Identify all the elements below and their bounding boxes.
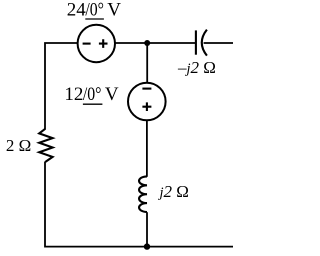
underline of angle for 24V	[85, 18, 104, 20]
V2 minus sign	[142, 88, 151, 90]
capacitor C curved plate	[202, 30, 207, 56]
svg-text:/0°: /0°	[83, 84, 102, 105]
label 12 angle 0 V	[64, 84, 119, 105]
wire left-bottom vertical and bottom horizontal	[45, 162, 233, 247]
wire inductor to bottom node	[146, 212, 148, 246]
svg-text:/0°: /0°	[85, 0, 104, 20]
underline of angle for 12V	[83, 103, 103, 105]
svg-text:24: 24	[67, 0, 87, 20]
V1 plus sign	[99, 39, 108, 48]
wire V1 to node A	[115, 42, 195, 44]
node A junction dot	[144, 40, 150, 46]
bottom junction dot	[144, 243, 150, 249]
svg-text:2 Ω: 2 Ω	[6, 136, 31, 155]
svg-text:V: V	[107, 0, 121, 20]
capacitor right wire to edge	[204, 42, 233, 44]
inductor L j2ohm coil	[139, 176, 147, 212]
voltage source V2 circle 12V	[128, 83, 166, 121]
resistor R 2ohm zigzag	[39, 129, 52, 162]
label 24 angle 0 V	[67, 0, 122, 20]
svg-text:–j2 Ω: –j2 Ω	[177, 58, 216, 77]
svg-text:12: 12	[64, 84, 83, 105]
capacitor C left plate	[195, 30, 197, 54]
wire V2 to inductor	[146, 120, 148, 177]
wire node A down to source V2	[146, 43, 148, 83]
svg-text:V: V	[105, 84, 119, 105]
wire top-left horizontal and left vertical (to resistor)	[45, 43, 78, 129]
V2 plus sign	[142, 102, 151, 111]
voltage source V1 circle 24V	[78, 25, 115, 62]
V1 minus sign	[83, 43, 91, 45]
svg-text:j2 Ω: j2 Ω	[158, 182, 189, 201]
